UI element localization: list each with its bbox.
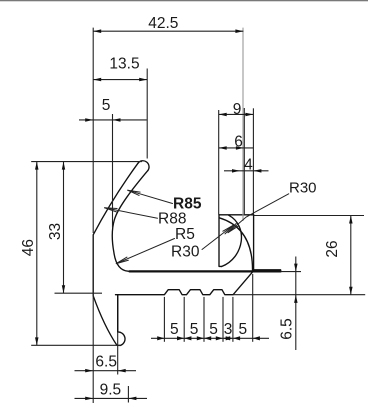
svg-text:5: 5 [209,321,218,338]
svg-text:R88: R88 [158,211,186,228]
svg-text:6: 6 [234,133,243,150]
svg-text:5: 5 [102,97,111,114]
svg-text:6.5: 6.5 [279,318,296,340]
svg-text:13.5: 13.5 [109,55,139,72]
svg-text:5: 5 [170,321,179,338]
svg-text:5: 5 [190,321,199,338]
svg-text:R30: R30 [289,180,317,197]
svg-text:3: 3 [224,321,233,338]
svg-text:42.5: 42.5 [148,15,178,32]
svg-text:5: 5 [238,321,247,338]
svg-text:33: 33 [47,223,64,240]
svg-text:26: 26 [324,240,341,257]
svg-text:R5: R5 [175,226,195,243]
svg-text:R30: R30 [171,244,200,261]
svg-text:6.5: 6.5 [95,354,117,371]
svg-text:9: 9 [233,101,242,118]
svg-text:46: 46 [20,239,37,256]
svg-text:4: 4 [244,156,253,173]
svg-text:9.5: 9.5 [100,382,122,399]
